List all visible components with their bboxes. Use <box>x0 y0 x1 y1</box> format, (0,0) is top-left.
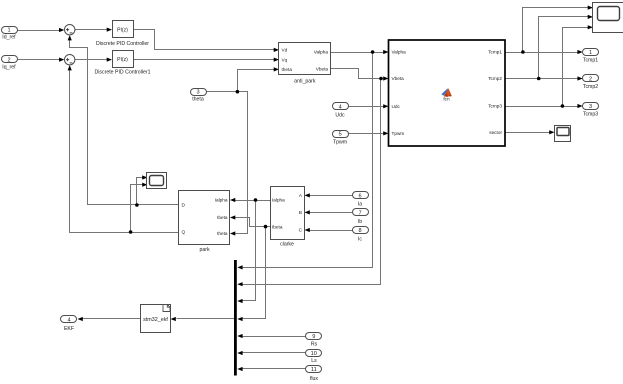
wire Sum1 to PID1 <box>75 29 108 31</box>
wire PID2 out to anti_park Vq <box>133 59 275 61</box>
arrow into park theta <box>230 231 235 235</box>
svg-text:Vd: Vd <box>282 48 288 53</box>
svg-text:Udc: Udc <box>335 112 345 118</box>
svg-text:Valpha: Valpha <box>314 50 329 55</box>
scope Scope (top right) <box>593 3 623 33</box>
arrow into fcn Valpha <box>383 50 388 54</box>
svg-text:Ia: Ia <box>358 201 362 207</box>
svg-text:Discrete PID Controller1: Discrete PID Controller1 <box>95 70 151 76</box>
node Valpha junction <box>371 50 375 54</box>
svg-text:4: 4 <box>67 318 70 324</box>
svg-text:Tcmp2: Tcmp2 <box>488 76 502 81</box>
svg-text:6: 6 <box>358 193 361 199</box>
svg-text:1: 1 <box>589 50 592 56</box>
inport 7 Ib <box>353 209 369 225</box>
svg-text:Discrete PID Controller: Discrete PID Controller <box>96 41 149 47</box>
wire Vbeta net <box>243 69 385 285</box>
outport 2 Tcmp2 <box>583 75 599 91</box>
wire park D feedback to Sum1 <box>70 40 179 205</box>
arrow into Sum1 bottom <box>68 35 72 40</box>
wire Ibeta net <box>235 218 271 319</box>
outport 3 Tcmp3 <box>583 103 599 118</box>
svg-text:B: B <box>299 210 302 215</box>
arrow into Sum1 left <box>59 28 64 32</box>
svg-text:Ialpha: Ialpha <box>215 198 228 203</box>
arrow into park Ibeta <box>230 215 235 219</box>
svg-text:Ib: Ib <box>358 219 362 225</box>
svg-text:flux: flux <box>310 376 318 382</box>
svg-text:Tpwm: Tpwm <box>392 131 405 136</box>
mux Mux bar <box>234 260 237 376</box>
svg-text:fcn: fcn <box>443 97 450 102</box>
arrow into Mux in1 <box>237 265 242 269</box>
wire Tpwm to fcn <box>349 133 385 135</box>
outport 1 Tcmp1 <box>583 49 599 64</box>
arrow into Mux in4 <box>237 317 242 321</box>
arrow into Mux in2 <box>237 282 242 286</box>
inport 5 Tpwm <box>333 131 349 146</box>
svg-text:Vbeta: Vbeta <box>316 67 329 72</box>
svg-text:Vq: Vq <box>282 57 288 62</box>
wire Sum2 to PID2 <box>75 59 108 61</box>
svg-text:anti_park: anti_park <box>294 78 316 84</box>
svg-text:Udc: Udc <box>392 104 401 109</box>
svg-text:8: 8 <box>358 228 361 234</box>
arrow into Scope top input1 <box>588 6 593 10</box>
svg-text:Ibeta: Ibeta <box>272 224 283 229</box>
svg-text:EKF: EKF <box>64 326 74 332</box>
arrow into fcn Udc <box>383 104 388 108</box>
node Tcmp3 junction <box>561 104 565 108</box>
outport 4 EKF <box>61 316 77 333</box>
svg-text:7: 7 <box>358 210 361 216</box>
sum block Sum1 <box>65 25 75 35</box>
svg-text:Iq_ref: Iq_ref <box>2 64 16 70</box>
svg-text:Ibeta: Ibeta <box>217 215 228 220</box>
wire Tcmp3 net <box>505 28 589 107</box>
svg-text:Ls: Ls <box>311 358 317 364</box>
arrow into park Ialpha <box>230 198 235 202</box>
scope Scope1 (sector) <box>555 126 571 142</box>
svg-text:Ialpha: Ialpha <box>272 198 285 203</box>
node Q junction <box>129 230 133 234</box>
inport 6 Ia <box>353 192 369 208</box>
wire park Q feedback to Sum2 <box>70 70 179 233</box>
arrow into Tcmp1 port <box>577 50 582 54</box>
node Ialpha junction <box>254 198 258 202</box>
arrow into fcn Tpwm <box>383 131 388 135</box>
svg-text:1: 1 <box>7 28 10 34</box>
arrow into Scope top input3 <box>588 25 593 29</box>
sum block Sum2 <box>65 55 75 65</box>
svg-text:5: 5 <box>339 132 342 138</box>
node Vbeta junction <box>379 77 383 81</box>
svg-text:theta: theta <box>282 67 293 72</box>
arrow into Mux in6 <box>237 351 242 355</box>
wire Udc to fcn <box>349 106 385 108</box>
arrow into Tcmp3 port <box>577 104 582 108</box>
wire theta net <box>207 70 275 234</box>
arrow into Scope2 input2 <box>142 183 147 187</box>
inport 2 Iq_ref <box>2 56 18 71</box>
svg-text:Ic: Ic <box>358 236 362 242</box>
block anti_park <box>279 43 331 85</box>
svg-text:sector: sector <box>489 130 502 135</box>
svg-text:Tcmp1: Tcmp1 <box>583 58 598 64</box>
block park <box>179 191 230 253</box>
svg-text:clarke: clarke <box>280 241 294 247</box>
wire Iq_ref to Sum2 <box>17 59 60 61</box>
wire Ialpha net <box>235 201 271 301</box>
svg-text:theta: theta <box>192 97 204 103</box>
wire Valpha net <box>243 53 385 268</box>
wire Rs to Mux <box>243 336 306 338</box>
svg-text:Q: Q <box>182 230 186 235</box>
svg-text:4: 4 <box>339 105 342 111</box>
wire Ic to clarke C <box>309 230 353 232</box>
inport 10 Ls <box>306 350 322 364</box>
arrow into fcn Vbeta <box>383 76 388 80</box>
svg-text:theta: theta <box>217 231 228 236</box>
arrow into clarke A <box>305 193 310 197</box>
arrow into anti_park Vd <box>274 48 279 52</box>
arrow into Scope2 input1 <box>142 175 147 179</box>
block Discrete PID Controller1 <box>95 51 151 76</box>
arrow into Tcmp2 port <box>577 76 582 80</box>
wire Ls to Mux <box>243 352 306 354</box>
inport 11 flux <box>306 366 322 382</box>
arrow into anti_park Vq <box>274 58 279 62</box>
wire Tcmp1 net <box>505 8 589 53</box>
svg-text:Vbeta: Vbeta <box>392 76 405 81</box>
wire Ib to clarke B <box>309 212 353 214</box>
svg-text:9: 9 <box>312 334 315 340</box>
wire Ia to clarke A <box>309 195 353 197</box>
arrow into anti_park theta <box>274 67 279 71</box>
node theta junction <box>236 90 240 94</box>
inport 9 Rs <box>306 333 322 348</box>
wire PID1 out to anti_park Vd <box>133 30 275 50</box>
svg-text:11: 11 <box>311 367 317 373</box>
wire Id_ref to Sum1 <box>17 30 60 32</box>
node Tcmp1 junction <box>521 50 525 54</box>
svg-text:3: 3 <box>589 104 592 110</box>
svg-text:PI(z): PI(z) <box>117 57 128 63</box>
scope Scope2 (D/Q) <box>147 173 167 189</box>
arrow into PID2 <box>107 58 112 62</box>
svg-text:2: 2 <box>589 77 592 83</box>
arrow into PID1 <box>107 28 112 32</box>
arrow into Mux in7 <box>237 367 242 371</box>
arrow into stm32_ekf <box>171 317 176 321</box>
node D junction <box>135 203 139 207</box>
arrow into Mux in3 <box>237 299 242 303</box>
block fcn MATLAB Function <box>389 40 506 146</box>
svg-text:Rs: Rs <box>311 342 318 348</box>
arrow into Mux in5 <box>237 334 242 338</box>
svg-text:Tcmp2: Tcmp2 <box>583 84 598 90</box>
svg-text:10: 10 <box>311 351 317 357</box>
block stm32_ekf S-function <box>141 305 171 333</box>
wire stm32_ekf to EKF port <box>83 318 141 320</box>
MATLAB logo inside fcn <box>441 88 452 97</box>
wire Mux out to stm32_ekf <box>177 318 235 320</box>
svg-text:Valpha: Valpha <box>392 50 407 55</box>
arrow into Scope1 sector <box>549 130 554 134</box>
wire Tcmp2 net <box>505 17 589 79</box>
svg-text:3: 3 <box>197 90 200 96</box>
wire flux to Mux <box>243 368 306 370</box>
svg-text:Tcmp3: Tcmp3 <box>583 112 598 118</box>
block clarke <box>271 187 305 248</box>
svg-text:park: park <box>199 247 209 253</box>
svg-text:stm32_ekf: stm32_ekf <box>143 317 168 323</box>
svg-text:Id_ref: Id_ref <box>2 35 16 41</box>
node Tcmp2 junction <box>537 77 541 81</box>
arrow into EKF port <box>78 317 83 321</box>
svg-text:PI(z): PI(z) <box>117 28 128 34</box>
inport 8 Ic <box>353 227 369 243</box>
node Ibeta junction <box>264 225 268 229</box>
svg-text:Tcmp1: Tcmp1 <box>488 50 502 55</box>
wire sector to Scope1 <box>505 132 551 134</box>
arrow into Sum2 left <box>59 58 64 62</box>
arrow into clarke B <box>305 210 310 214</box>
inport 1 Id_ref <box>2 27 18 41</box>
arrow into Sum2 bottom <box>68 65 72 70</box>
svg-text:2: 2 <box>7 58 10 64</box>
block Discrete PID Controller <box>96 21 149 48</box>
svg-text:Tpwm: Tpwm <box>333 139 347 145</box>
inport 3 theta <box>191 89 207 103</box>
inport 4 Udc <box>333 103 349 119</box>
svg-text:Tcmp3: Tcmp3 <box>488 104 502 109</box>
arrow into Scope top input2 <box>588 15 593 19</box>
arrow into clarke C <box>305 228 310 232</box>
